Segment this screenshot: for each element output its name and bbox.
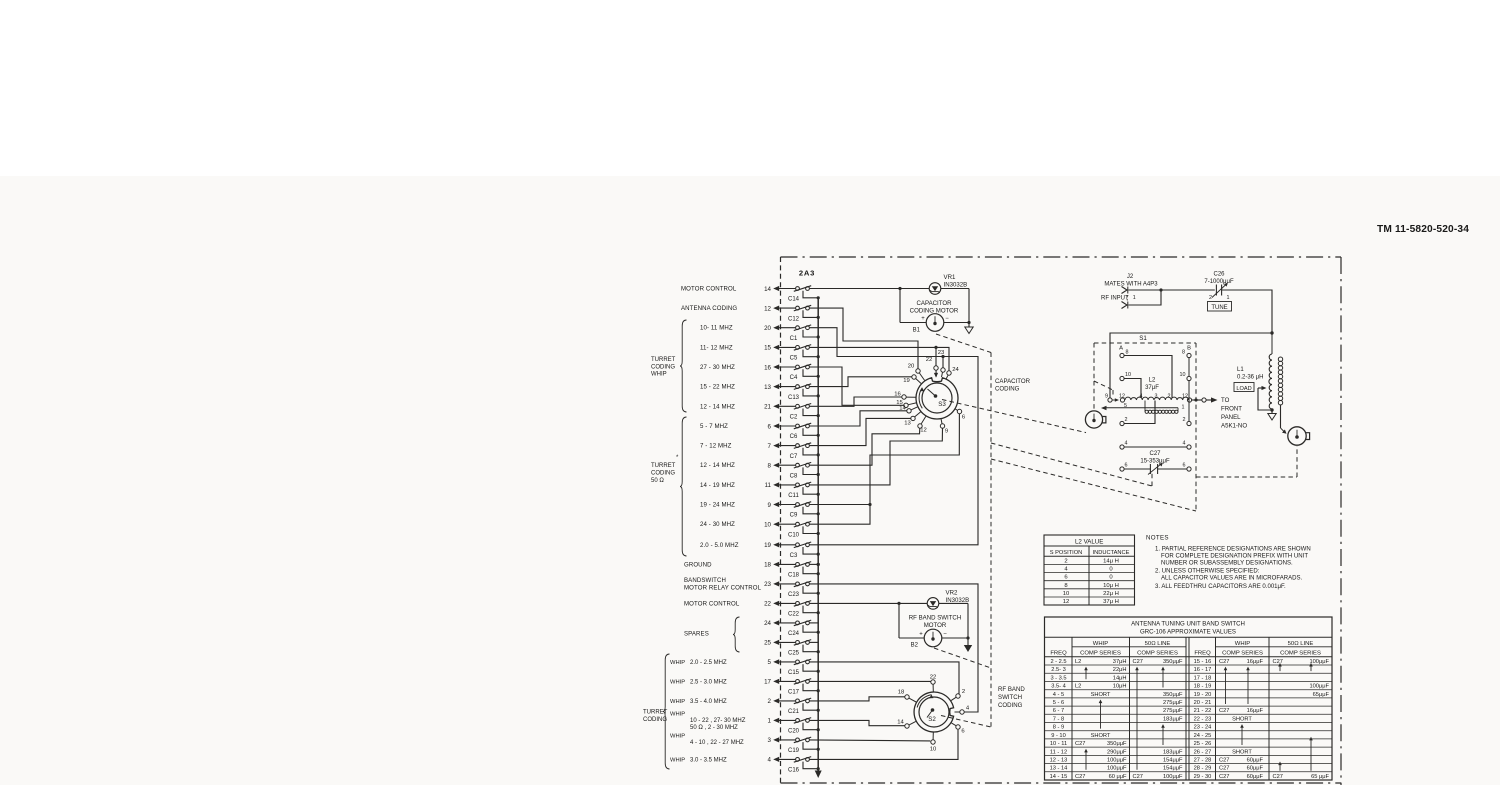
S1 contact B10 xyxy=(1180,372,1192,381)
net label MOTOR CONTROL (pin 22) xyxy=(684,600,740,607)
wire pin 21 to S3 contact 16 xyxy=(810,397,902,406)
svg-text:10 - 22 , 27- 30 MHZ: 10 - 22 , 27- 30 MHZ xyxy=(690,718,746,724)
svg-text:4: 4 xyxy=(1183,441,1186,447)
svg-text:TURRET: TURRET xyxy=(651,463,676,469)
feedthrough capacitor C19 (pin 3) xyxy=(768,737,820,754)
wire pin 6 to S3 contact 14 xyxy=(810,411,907,426)
svg-text:FOR COMPLETE DESIGNATION PREFI: FOR COMPLETE DESIGNATION PREFIX WITH UNI… xyxy=(1161,554,1308,560)
svg-text:10: 10 xyxy=(1180,372,1186,378)
svg-text:C27: C27 xyxy=(1219,766,1229,772)
scanned page background xyxy=(0,176,1500,785)
svg-text:10- 11 MHZ: 10- 11 MHZ xyxy=(700,325,733,332)
svg-text:C27: C27 xyxy=(1075,774,1085,780)
svg-text:9: 9 xyxy=(945,429,948,435)
svg-text:12: 12 xyxy=(920,428,927,434)
net label WHIP 3.5-4.0 MHZ (pin 2) xyxy=(670,699,727,705)
dashed link S1 box to load servo xyxy=(1196,446,1297,477)
svg-text:12: 12 xyxy=(1063,599,1070,605)
svg-text:S3: S3 xyxy=(938,401,946,408)
wire pin 11 to S3 contact 9 xyxy=(810,428,943,485)
svg-text:+: + xyxy=(919,632,923,638)
svg-text:C25: C25 xyxy=(788,651,800,657)
svg-text:C17: C17 xyxy=(788,690,800,696)
svg-text:3 - 3.5: 3 - 3.5 xyxy=(1050,675,1066,681)
svg-text:16 - 17: 16 - 17 xyxy=(1194,667,1212,673)
svg-text:9: 9 xyxy=(1105,394,1108,400)
svg-text:3.5 - 4.0 MHZ: 3.5 - 4.0 MHZ xyxy=(690,699,727,705)
S1 contact A4 xyxy=(1120,441,1128,450)
svg-text:CODING: CODING xyxy=(995,386,1020,393)
svg-text:L1: L1 xyxy=(1237,367,1244,373)
svg-text:26 - 27: 26 - 27 xyxy=(1194,749,1212,755)
svg-text:C6: C6 xyxy=(790,434,798,440)
svg-text:COMP SERIES: COMP SERIES xyxy=(1137,651,1178,657)
svg-text:2.5- 3: 2.5- 3 xyxy=(1051,667,1066,673)
wire pin 22 to VR2/B2 node xyxy=(810,602,899,604)
svg-text:23: 23 xyxy=(938,350,945,356)
svg-text:WHIP: WHIP xyxy=(1093,641,1108,647)
svg-text:C27: C27 xyxy=(1273,774,1283,780)
wire J2 pin 1 to C26 node xyxy=(1128,288,1214,291)
feedthrough capacitor C3 (pin 19) xyxy=(764,542,820,559)
wire pin 24 spare stub xyxy=(810,622,819,624)
svg-text:13 - 14: 13 - 14 xyxy=(1050,766,1068,772)
diode VR1 1N3032B xyxy=(898,274,969,294)
S1 contact B8 xyxy=(1182,350,1191,358)
wire pin 2 to S2 contact 18 xyxy=(810,697,905,701)
svg-text:2: 2 xyxy=(1168,394,1171,400)
svg-text:29 - 30: 29 - 30 xyxy=(1194,774,1212,780)
wire pin 20 / pin 19 loop to S3 area xyxy=(810,328,978,545)
svg-text:C3: C3 xyxy=(790,553,798,559)
svg-text:10 - 11: 10 - 11 xyxy=(1050,741,1067,747)
net label 19 - 24 MHZ (50 ohm turret) xyxy=(700,502,735,509)
table ANTENNA TUNING UNIT BAND SWITCH xyxy=(1045,617,1333,780)
svg-text:3: 3 xyxy=(1155,394,1158,400)
svg-text:4: 4 xyxy=(1125,441,1128,447)
svg-text:10: 10 xyxy=(1063,591,1070,597)
svg-text:8: 8 xyxy=(1182,350,1185,356)
net label MOTOR CONTROL (pin 14) xyxy=(681,286,737,293)
svg-text:60 μμF: 60 μμF xyxy=(1109,774,1127,780)
svg-text:2: 2 xyxy=(1209,295,1212,301)
svg-text:J2: J2 xyxy=(1127,274,1134,280)
svg-text:10: 10 xyxy=(930,747,937,753)
ground symbol at B2 xyxy=(964,638,972,652)
svg-text:1: 1 xyxy=(1133,295,1136,301)
net label 15 - 22 MHZ (whip turret) xyxy=(700,384,735,391)
svg-text:27 - 30 MHZ: 27 - 30 MHZ xyxy=(700,364,735,371)
net label WHIP 3.0-3.5 MHZ (pin 4) xyxy=(670,757,727,763)
svg-text:WHIP: WHIP xyxy=(670,757,685,763)
svg-text:GRC-106 APPROXIMATE VALUES: GRC-106 APPROXIMATE VALUES xyxy=(1140,629,1236,636)
brace TURRET CODING 50 ohm group xyxy=(680,417,687,556)
diode VR2 1N3032B xyxy=(897,590,969,610)
svg-text:7 - 12 MHZ: 7 - 12 MHZ xyxy=(700,443,732,450)
svg-text:L2 VALUE: L2 VALUE xyxy=(1075,538,1103,545)
S1 contact B12 output xyxy=(1187,398,1191,402)
svg-text:MOTOR CONTROL: MOTOR CONTROL xyxy=(681,286,737,293)
svg-text:MATES WITH A4P3: MATES WITH A4P3 xyxy=(1104,282,1158,288)
svg-text:C4: C4 xyxy=(790,375,798,381)
svg-text:C1: C1 xyxy=(790,336,798,342)
svg-text:5: 5 xyxy=(768,659,772,666)
feedthrough capacitor C7 (pin 7) xyxy=(768,443,820,460)
svg-text:C19: C19 xyxy=(788,748,800,754)
S1 contact A8 xyxy=(1120,350,1129,358)
svg-text:19: 19 xyxy=(764,542,771,549)
dashed link shaft to S1 xyxy=(991,459,1196,511)
svg-text:6: 6 xyxy=(1125,463,1128,469)
svg-text:11: 11 xyxy=(765,482,772,489)
S1 contact B2 xyxy=(1183,400,1192,426)
svg-text:−: − xyxy=(945,316,949,322)
svg-text:PANEL: PANEL xyxy=(1221,414,1241,421)
svg-text:COMP SERIES: COMP SERIES xyxy=(1222,651,1263,657)
net label BANDSWITCH MOTOR RELAY CONTROL (pin 23) xyxy=(684,577,762,591)
S1 contact B6 xyxy=(1183,463,1192,472)
svg-text:23: 23 xyxy=(764,581,771,588)
dashed link B2 to shaft xyxy=(934,648,991,668)
svg-text:22: 22 xyxy=(764,601,771,608)
svg-text:L2: L2 xyxy=(1075,684,1081,690)
svg-text:CODING: CODING xyxy=(651,470,675,476)
svg-text:FRONT: FRONT xyxy=(1221,406,1242,413)
feedthrough capacitor C11 (pin 11) xyxy=(765,482,820,499)
svg-text:23 - 24: 23 - 24 xyxy=(1194,725,1212,731)
feedthrough capacitor C14 (pin 14) xyxy=(764,286,820,303)
feedthrough capacitor C20 (pin 1) xyxy=(768,718,820,735)
wiper output arrow of wafer A (to ground lead) xyxy=(1101,406,1178,412)
svg-text:65μμF: 65μμF xyxy=(1313,692,1330,698)
wire S1 A8 to L2 tap 2 xyxy=(1124,356,1172,399)
svg-text:C27: C27 xyxy=(1219,708,1229,714)
svg-text:S1: S1 xyxy=(1139,335,1147,342)
label RF BAND SWITCH CODING xyxy=(998,686,1025,709)
svg-text:50 Ω: 50 Ω xyxy=(651,478,664,484)
svg-text:19 - 20: 19 - 20 xyxy=(1194,692,1212,698)
svg-text:5 - 6: 5 - 6 xyxy=(1053,700,1064,706)
svg-text:C27: C27 xyxy=(1219,774,1229,780)
svg-text:C10: C10 xyxy=(788,532,800,538)
group label TURRET CODING 50 ohm xyxy=(651,455,679,484)
svg-text:SWITCH: SWITCH xyxy=(998,694,1022,701)
svg-text:5 - 7 MHZ: 5 - 7 MHZ xyxy=(700,423,728,430)
table L2 VALUE xyxy=(1044,535,1135,605)
net label WHIP 10-22,27-30 MHZ 50ohm 2-30MHZ (pin 1) xyxy=(670,711,746,731)
svg-text:C27: C27 xyxy=(1149,451,1161,457)
svg-text:B: B xyxy=(1187,346,1191,352)
wire pin 23 to S2 contact 4 xyxy=(810,584,978,712)
svg-text:100μμF: 100μμF xyxy=(1309,684,1329,690)
svg-text:22μ H: 22μ H xyxy=(1103,591,1119,597)
svg-text:C5: C5 xyxy=(790,356,798,362)
svg-text:8: 8 xyxy=(768,463,772,470)
switch S1 dashed enclosure xyxy=(1094,335,1196,511)
svg-text:15 - 16: 15 - 16 xyxy=(1194,659,1212,665)
S3 index arrow at contact 22 xyxy=(934,370,938,377)
svg-text:10: 10 xyxy=(1125,372,1131,378)
svg-text:C15: C15 xyxy=(788,670,800,676)
svg-text:350μμF: 350μμF xyxy=(1107,741,1127,747)
brace TURRET CODING whip-bottom group xyxy=(663,654,670,769)
svg-text:9: 9 xyxy=(768,502,772,509)
ground symbol at VR1/B1 xyxy=(965,323,973,334)
svg-text:ANTENNA CODING: ANTENNA CODING xyxy=(681,305,737,312)
feedthrough capacitor C15 (pin 5) xyxy=(768,659,820,676)
wire S3 contact 23 feed xyxy=(941,355,944,368)
ground symbol at L1 xyxy=(1268,410,1276,420)
svg-text:C23: C23 xyxy=(788,592,800,598)
svg-text:2: 2 xyxy=(768,698,772,705)
feedthrough capacitor C21 (pin 2) xyxy=(768,698,820,715)
feedthrough capacitor C16 (pin 4) xyxy=(768,757,820,774)
svg-text:154μμF: 154μμF xyxy=(1163,758,1183,764)
svg-text:4 - 10 , 22 - 27 MHZ: 4 - 10 , 22 - 27 MHZ xyxy=(690,740,744,746)
wire pin 25 spare stub xyxy=(810,641,819,643)
S1 contact A2 xyxy=(1120,417,1128,426)
svg-text:SHORT: SHORT xyxy=(1091,692,1111,698)
svg-text:154μμF: 154μμF xyxy=(1163,766,1183,772)
svg-text:B1: B1 xyxy=(913,328,921,334)
svg-text:50Ω LINE: 50Ω LINE xyxy=(1145,641,1171,647)
net label WHIP 4-10, 22-27 MHZ (pin 3) xyxy=(670,733,744,746)
L1 secondary winding xyxy=(1278,357,1282,405)
feedthrough capacitor C6 (pin 6) xyxy=(768,423,820,440)
svg-text:18: 18 xyxy=(898,690,905,696)
svg-text:C27: C27 xyxy=(1219,659,1229,665)
S1 contact B4 xyxy=(1183,441,1192,450)
svg-text:CAPACITOR: CAPACITOR xyxy=(995,378,1031,385)
svg-text:C24: C24 xyxy=(788,631,800,637)
svg-text:16: 16 xyxy=(764,364,771,371)
svg-text:17: 17 xyxy=(764,679,771,686)
wire pin 9 stub xyxy=(810,503,872,506)
dashed link B1 to coding shaft xyxy=(936,334,991,353)
svg-text:COMP SERIES: COMP SERIES xyxy=(1080,651,1121,657)
svg-text:7-1000μμF: 7-1000μμF xyxy=(1204,279,1234,285)
svg-text:GROUND: GROUND xyxy=(684,561,712,568)
svg-text:C9: C9 xyxy=(790,513,798,519)
S1 contact A6 xyxy=(1120,463,1128,472)
motor B2 RF band switch motor xyxy=(899,603,970,648)
wire pin 7 to S3 contact 13 xyxy=(810,418,911,445)
svg-text:SHORT: SHORT xyxy=(1232,749,1252,755)
svg-text:14μ H: 14μ H xyxy=(1103,558,1119,564)
svg-text:3: 3 xyxy=(768,737,772,744)
wire S1 A2 to L2 tap 3 xyxy=(1124,401,1155,424)
feedthrough capacitor C25 (pin 25) xyxy=(764,640,820,657)
svg-text:7 - 8: 7 - 8 xyxy=(1053,716,1064,722)
svg-text:A: A xyxy=(1119,346,1123,352)
svg-text:CODING MOTOR: CODING MOTOR xyxy=(910,308,959,315)
svg-text:60μμF: 60μμF xyxy=(1247,766,1264,772)
wire pin 8 to S3 contact 12 xyxy=(810,428,920,465)
svg-text:2.5 - 3.0 MHZ: 2.5 - 3.0 MHZ xyxy=(690,679,727,685)
unit 2A3 boundary dashed border left xyxy=(780,257,782,785)
net label ANTENNA CODING (pin 12) xyxy=(681,305,737,312)
wire pin 13 to S3 contact 19 xyxy=(810,377,912,387)
svg-text:+: + xyxy=(921,316,925,322)
feedthrough capacitor C1 (pin 20) xyxy=(764,325,820,342)
wire pin 16 to S3 contact 15 xyxy=(810,367,904,405)
svg-text:275μμF: 275μμF xyxy=(1163,700,1183,706)
svg-text:12 - 14 MHZ: 12 - 14 MHZ xyxy=(700,462,735,469)
wire C26 node to S1 pin 9 drop xyxy=(1110,333,1272,398)
dashed link S3 wiper to tune servo xyxy=(942,400,1086,433)
net label 2.0 - 5.0 MHZ (50 ohm turret) xyxy=(700,542,739,549)
variable capacitor C27 15-353uuF xyxy=(1124,451,1187,475)
ground bus xyxy=(815,298,822,778)
svg-text:RF BAND: RF BAND xyxy=(998,686,1025,693)
svg-text:SHORT: SHORT xyxy=(1232,716,1252,722)
feedthrough capacitor C12 (pin 12) xyxy=(764,305,820,322)
svg-text:13: 13 xyxy=(904,421,911,427)
svg-text:14 - 19 MHZ: 14 - 19 MHZ xyxy=(700,482,735,489)
unit 2A3 boundary dashed border bottom xyxy=(781,782,1342,784)
svg-text:20 - 21: 20 - 21 xyxy=(1194,700,1212,706)
svg-text:10: 10 xyxy=(764,522,771,529)
svg-text:15: 15 xyxy=(764,345,771,352)
svg-text:24: 24 xyxy=(764,620,771,627)
svg-text:19: 19 xyxy=(903,378,910,384)
svg-text:C27: C27 xyxy=(1075,741,1085,747)
wire VR1 right leg down to ground xyxy=(968,289,970,323)
svg-text:14 - 15: 14 - 15 xyxy=(1050,774,1068,780)
wire VR2 right leg down xyxy=(967,603,969,638)
net label 5 - 7 MHZ (50 ohm turret) xyxy=(700,423,728,430)
feedthrough capacitor C2 (pin 21) xyxy=(764,404,820,421)
load servo shaft symbol xyxy=(1288,427,1310,445)
svg-text:1: 1 xyxy=(768,718,772,725)
motor B1 capacitor coding motor xyxy=(900,289,971,334)
net label GROUND (pin 18) xyxy=(684,561,712,568)
svg-text:C13: C13 xyxy=(788,395,800,401)
brace TURRET CODING WHIP group xyxy=(680,320,687,412)
svg-text:2.0 - 2.5 MHZ: 2.0 - 2.5 MHZ xyxy=(690,660,727,666)
svg-text:28 - 29: 28 - 29 xyxy=(1194,766,1212,772)
svg-text:16: 16 xyxy=(894,392,901,398)
svg-text:CODING: CODING xyxy=(651,364,675,370)
svg-text:2: 2 xyxy=(962,689,965,695)
feedthrough capacitor C13 (pin 13) xyxy=(764,384,820,401)
svg-text:C26: C26 xyxy=(1213,272,1225,278)
svg-text:C18: C18 xyxy=(788,573,800,579)
svg-text:2: 2 xyxy=(1183,417,1186,423)
svg-text:NOTES: NOTES xyxy=(1146,534,1169,541)
svg-text:12: 12 xyxy=(764,305,771,312)
svg-text:17 - 18: 17 - 18 xyxy=(1194,675,1212,681)
feedthrough capacitor C5 (pin 15) xyxy=(764,345,820,362)
net label 12 - 14 MHZ (whip turret) xyxy=(700,403,735,410)
svg-text:C14: C14 xyxy=(788,297,800,303)
feedthrough capacitor C18 (pin 18) xyxy=(764,562,820,579)
feedthrough capacitor C24 (pin 24) xyxy=(764,620,820,637)
svg-text:WHIP: WHIP xyxy=(670,660,685,666)
svg-text:15 - 22 MHZ: 15 - 22 MHZ xyxy=(700,384,735,391)
svg-text:TUNE: TUNE xyxy=(1211,305,1227,311)
svg-text:50Ω LINE: 50Ω LINE xyxy=(1288,641,1314,647)
svg-text:3.5- 4: 3.5- 4 xyxy=(1051,684,1066,690)
svg-text:TM 11-5820-520-34: TM 11-5820-520-34 xyxy=(1377,224,1469,235)
dashed link shaft to C27 xyxy=(991,443,1152,486)
feedthrough capacitor C23 (pin 23) xyxy=(764,581,820,598)
svg-text:16μμF: 16μμF xyxy=(1247,708,1264,714)
svg-text:4 - 5: 4 - 5 xyxy=(1053,692,1064,698)
svg-text:2.0 - 5.0 MHZ: 2.0 - 5.0 MHZ xyxy=(700,542,739,549)
svg-text:2: 2 xyxy=(1125,417,1128,423)
tune servo shaft symbol xyxy=(1085,411,1106,428)
svg-text:12: 12 xyxy=(1182,394,1188,400)
svg-text:3. ALL FEEDTHRU CAPACITORS ARE: 3. ALL FEEDTHRU CAPACITORS ARE 0.001μF. xyxy=(1155,584,1286,590)
feedthrough capacitor C9 (pin 9) xyxy=(768,502,820,519)
svg-text:100μμF: 100μμF xyxy=(1107,758,1127,764)
svg-text:2: 2 xyxy=(1064,558,1067,564)
svg-text:10μH: 10μH xyxy=(1113,684,1127,690)
svg-text:12 - 13: 12 - 13 xyxy=(1050,758,1068,764)
svg-text:350μμF: 350μμF xyxy=(1163,692,1183,698)
feedthrough capacitor C10 (pin 10) xyxy=(764,521,820,538)
svg-text:VR1: VR1 xyxy=(944,274,956,281)
S1 contact A12 / pin 9 wiper xyxy=(1105,394,1127,410)
svg-text:TO: TO xyxy=(1221,397,1230,404)
svg-text:24: 24 xyxy=(952,367,959,373)
svg-text:C2: C2 xyxy=(790,415,798,421)
svg-text:CODING: CODING xyxy=(643,717,667,723)
svg-text:2A3: 2A3 xyxy=(799,269,815,278)
wire S1 A4 to B4 xyxy=(1124,446,1187,448)
S1 wafer B shorting bar 8-10-12 xyxy=(1188,358,1190,400)
svg-text:WHIP: WHIP xyxy=(670,711,685,717)
svg-text:60μμF: 60μμF xyxy=(1247,774,1264,780)
svg-text:20: 20 xyxy=(764,325,771,332)
inductor L2 lower winding (taps 5-1) xyxy=(1145,401,1185,414)
svg-text:60μμF: 60μμF xyxy=(1247,758,1264,764)
net label 12 - 14 MHZ (50 ohm turret) xyxy=(700,462,735,469)
svg-text:4: 4 xyxy=(768,757,772,764)
svg-text:C16: C16 xyxy=(788,768,800,774)
net label 11- 12 MHZ (whip turret) xyxy=(700,344,733,351)
svg-text:24 - 25: 24 - 25 xyxy=(1194,733,1212,739)
wire pin 17 to S2 contact 22 xyxy=(810,680,931,682)
feedthrough capacitor C4 (pin 16) xyxy=(764,364,820,381)
svg-text:14: 14 xyxy=(899,406,906,412)
svg-text:L2: L2 xyxy=(1149,378,1156,384)
svg-text:7: 7 xyxy=(768,443,772,450)
svg-text:CAPACITOR: CAPACITOR xyxy=(917,300,953,307)
wire S1 B12 to front panel A5K1-NO xyxy=(1192,397,1248,430)
svg-text:C12: C12 xyxy=(788,316,800,322)
wiper arrow on S1 A xyxy=(1112,398,1119,402)
L1 adjustable tap xyxy=(1258,386,1274,412)
svg-text:MOTOR: MOTOR xyxy=(924,622,947,629)
svg-text:COMP SERIES: COMP SERIES xyxy=(1280,651,1321,657)
S1 contact A10 xyxy=(1120,372,1131,381)
svg-text:20: 20 xyxy=(908,364,915,370)
net label 14 - 19 MHZ (50 ohm turret) xyxy=(700,482,735,489)
svg-text:37μH: 37μH xyxy=(1113,659,1127,665)
svg-text:INDUCTANCE: INDUCTANCE xyxy=(1093,550,1130,556)
wire secondary to load servo xyxy=(1281,405,1287,434)
svg-text:C27: C27 xyxy=(1133,774,1143,780)
svg-text:12 - 14 MHZ: 12 - 14 MHZ xyxy=(700,403,735,410)
svg-text:L2: L2 xyxy=(1075,659,1081,665)
svg-text:C11: C11 xyxy=(788,493,799,499)
connector J2 RF INPUT xyxy=(1101,274,1158,309)
svg-text:MOTOR CONTROL: MOTOR CONTROL xyxy=(684,600,740,607)
svg-text:6: 6 xyxy=(768,423,772,430)
wire pin 9 / pin 10 to S3 contact 6 xyxy=(810,414,960,524)
